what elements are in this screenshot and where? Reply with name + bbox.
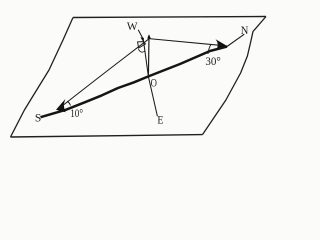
- wire: thin continuation toward N corner: [227, 34, 244, 46]
- arrowhead at S end: [56, 99, 66, 112]
- svg-text:30°: 30°: [205, 54, 221, 68]
- angle arc below quad mark: [138, 49, 145, 52]
- small up arrowhead at top of vertical segment: [147, 34, 151, 38]
- angle arc 30 degrees near Q: [208, 45, 211, 55]
- svg-text:S: S: [35, 112, 41, 124]
- svg-text:W: W: [127, 21, 138, 33]
- small arrowhead of W pointer: [140, 37, 144, 41]
- plane boundary: left edge: [11, 18, 74, 138]
- wire: thick line S to N through O: [41, 47, 228, 118]
- plane boundary: top edge: [73, 17, 266, 18]
- svg-text:N: N: [241, 23, 249, 37]
- wire: thin line P to Q (vector toward arrowhead): [149, 39, 220, 46]
- angle arc 10 degrees near S: [67, 101, 70, 105]
- wire: vertical segment P down to O: [147, 36, 150, 77]
- wire: thin line from S tip to P: [59, 39, 149, 109]
- plane boundary: right edge: [203, 17, 267, 135]
- arrowhead near N (tip on thick line): [216, 39, 228, 48]
- svg-text:10°: 10°: [70, 106, 83, 120]
- svg-text:O: O: [151, 76, 158, 90]
- wire: W-E axis through O down to E: [143, 39, 157, 117]
- pointer line from label W: [138, 30, 142, 38]
- svg-text:E: E: [157, 115, 163, 127]
- right-angle quad mark near P: [138, 42, 146, 49]
- plane boundary: bottom edge: [11, 135, 203, 137]
